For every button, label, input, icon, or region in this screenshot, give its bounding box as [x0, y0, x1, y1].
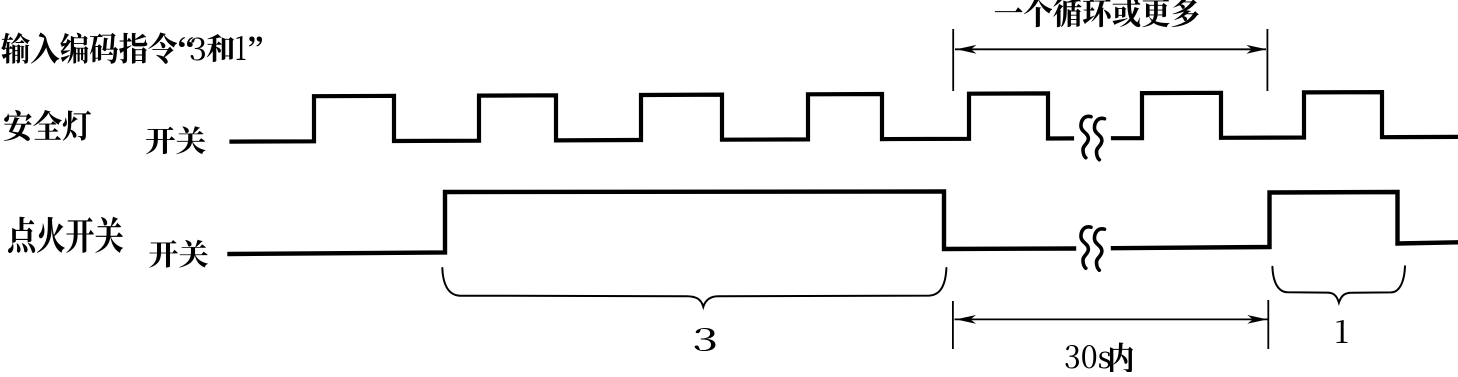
dimension line: one cycle or more	[955, 48, 1266, 50]
extension line: bottom dimension, left	[952, 301, 954, 349]
break mark: ignition waveform squiggle 2	[1094, 229, 1104, 270]
label: within 30s (30s内)	[1065, 345, 1110, 369]
wire: ignition-switch waveform, right of break	[1113, 192, 1458, 248]
label: switch (开关) row 2	[149, 240, 208, 268]
break mark: security-lamp waveform squiggle 1	[1081, 116, 1091, 157]
arrowhead: bottom dimension right	[1247, 315, 1267, 324]
break mark: security-lamp waveform squiggle 2	[1094, 118, 1104, 159]
arrowhead: top dimension right	[1246, 45, 1266, 54]
wire: security-lamp waveform, right of break	[1113, 92, 1458, 138]
brace: under ignition long pulse (3)	[442, 268, 946, 307]
label: switch (开关) row 1	[146, 126, 205, 154]
extension line: top dimension, left	[952, 29, 954, 91]
brace: under ignition short pulse (1)	[1272, 266, 1405, 302]
label: input code instruction "3 and 1" (输入编码指令“3和1”)	[1, 32, 177, 63]
extension line: bottom dimension, right	[1267, 300, 1269, 349]
wire: ignition-switch waveform, left of break	[230, 192, 1075, 255]
arrowhead: bottom dimension left	[956, 315, 976, 324]
label: one cycle or more (一个循环或更多)	[995, 0, 1199, 27]
label: ignition switch (点火开关)	[8, 217, 123, 253]
label: security lamp (安全灯)	[4, 110, 91, 141]
extension line: top dimension, right	[1266, 29, 1268, 91]
dimension line: 30s	[955, 318, 1268, 320]
wire: security-lamp waveform, left of break	[232, 93, 1073, 141]
label: 3 (count under brace)	[694, 328, 715, 351]
break mark: ignition waveform squiggle 1	[1081, 227, 1091, 268]
label: 1 (count under brace)	[1337, 320, 1348, 343]
arrowhead: top dimension left	[957, 45, 977, 54]
